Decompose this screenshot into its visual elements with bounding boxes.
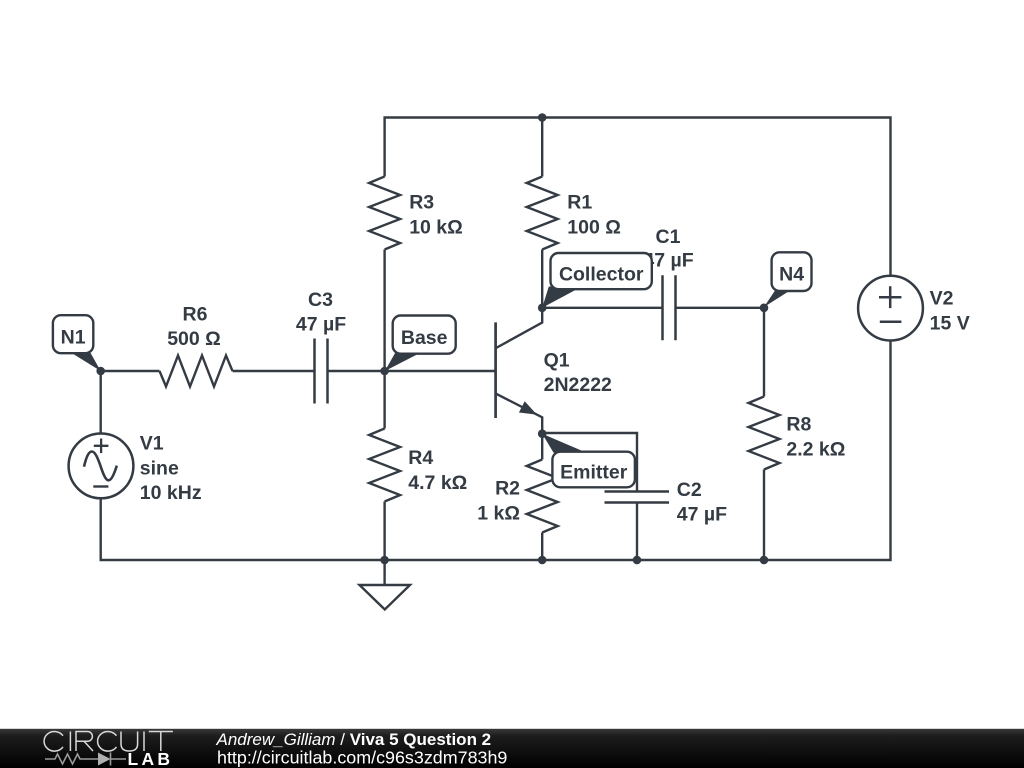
svg-text:C2: C2 <box>677 479 702 501</box>
svg-text:sine: sine <box>140 458 179 480</box>
svg-text:R6: R6 <box>183 304 208 326</box>
resistor R6 <box>160 356 233 387</box>
V2 minus sign <box>880 320 902 323</box>
svg-text:47 µF: 47 µF <box>677 503 727 525</box>
junction node dot N4 <box>760 304 769 313</box>
svg-text:Collector: Collector <box>559 263 644 285</box>
wire emitter node to C2 branch <box>542 433 637 492</box>
resistor R4 <box>369 429 400 502</box>
svg-text:Base: Base <box>401 327 448 349</box>
svg-text:10 kΩ: 10 kΩ <box>409 216 463 238</box>
svg-text:Andrew_Gilliam / Viva 5 Questi: Andrew_Gilliam / Viva 5 Question 2 <box>216 730 492 749</box>
svg-text:http://circuitlab.com/c96s3zdm: http://circuitlab.com/c96s3zdm783h9 <box>217 748 507 768</box>
svg-text:47 µF: 47 µF <box>296 313 346 335</box>
Q1 collector lead <box>496 308 542 348</box>
svg-text:N4: N4 <box>779 263 804 285</box>
CircuitLab logo wordmark CIRCUIT <box>44 732 173 752</box>
junction node dot at R1 top <box>538 113 547 122</box>
wire N1 node to R6 <box>101 370 160 372</box>
capacitor C3 plates <box>315 339 328 404</box>
junction node dot R2 bottom <box>538 556 547 565</box>
wire R2 top stem <box>541 434 543 460</box>
wire R8 bottom stem <box>763 470 765 561</box>
voltage source V2 circle <box>858 276 923 341</box>
V1 sine wave <box>84 452 117 481</box>
wire ground stem <box>383 560 385 585</box>
svg-text:C1: C1 <box>656 226 681 248</box>
CircuitLab logo resistor-diode strip <box>45 753 126 766</box>
resistor R2 <box>527 460 558 533</box>
resistor R1 <box>527 177 558 250</box>
transistor Q1 base bar <box>494 322 497 418</box>
svg-text:2N2222: 2N2222 <box>544 374 612 396</box>
junction node dot Collector <box>538 304 547 313</box>
wire C3 right plate to base node to Q1 base <box>328 370 496 372</box>
svg-text:4.7 kΩ: 4.7 kΩ <box>408 472 467 494</box>
svg-text:R2: R2 <box>495 478 520 500</box>
node N1 callout <box>53 315 101 371</box>
wire R1 top stem <box>541 118 543 177</box>
wire top rail with R3 top stem and V2 top stem <box>385 118 891 276</box>
Q1 emitter arrowhead <box>519 401 537 414</box>
junction node dot R8 bottom <box>760 556 769 565</box>
svg-text:R8: R8 <box>786 414 811 436</box>
V1 minus sign <box>93 485 108 487</box>
svg-text:Emitter: Emitter <box>560 462 628 484</box>
node Base callout <box>385 316 456 372</box>
capacitor C1 plates <box>663 275 676 340</box>
wire R3 bottom stem to base node <box>383 250 385 372</box>
Q1 emitter lead <box>496 394 542 434</box>
svg-text:R1: R1 <box>567 192 592 214</box>
resistor R8 <box>749 397 780 470</box>
node N4 callout <box>764 252 812 307</box>
capacitor C2 plates <box>605 492 670 503</box>
junction node dot N1 <box>96 367 105 376</box>
svg-text:R4: R4 <box>408 447 433 469</box>
junction node dot C2 bottom <box>633 556 642 565</box>
wire R4 bottom stem <box>383 502 385 561</box>
svg-text:2.2 kΩ: 2.2 kΩ <box>786 439 845 461</box>
svg-text:Q1: Q1 <box>544 350 570 372</box>
svg-text:1 kΩ: 1 kΩ <box>477 503 520 525</box>
ground symbol <box>360 585 411 610</box>
V2 plus sign <box>879 286 901 308</box>
node Emitter callout <box>542 434 635 488</box>
wire R8 top stem <box>763 308 765 397</box>
junction node dot ground <box>380 556 389 565</box>
wire R6 to C3 left plate <box>233 370 315 372</box>
node Collector callout <box>542 253 652 308</box>
V1 plus sign <box>94 439 109 454</box>
svg-text:V1: V1 <box>140 432 164 454</box>
wire R1 bottom stem to collector node <box>541 250 543 308</box>
svg-text:C3: C3 <box>308 289 333 311</box>
wire V1 top stem <box>99 371 101 434</box>
svg-text:10 kHz: 10 kHz <box>140 482 202 504</box>
wire R2 bottom stem <box>541 533 543 561</box>
wire R4 top stem <box>383 371 385 429</box>
junction node dot Emitter <box>538 429 547 438</box>
svg-text:V2: V2 <box>930 288 954 310</box>
svg-text:N1: N1 <box>61 326 86 348</box>
resistor R3 <box>369 177 400 250</box>
svg-text:LAB: LAB <box>128 749 174 768</box>
svg-text:R3: R3 <box>409 192 434 214</box>
CircuitLab logo diode triangle <box>98 753 111 766</box>
wire C2 bottom stem <box>636 503 638 561</box>
junction node dot Base <box>380 367 389 376</box>
wire C1 right plate to N4 node <box>676 307 765 309</box>
svg-text:100 Ω: 100 Ω <box>567 216 621 238</box>
voltage source V1 circle <box>69 434 134 499</box>
svg-text:500 Ω: 500 Ω <box>167 328 221 350</box>
wire collector node to C1 left plate <box>542 307 662 309</box>
svg-text:15 V: 15 V <box>930 313 970 335</box>
wire V1 bottom stem, bottom rail, V2 bottom stem <box>101 340 891 560</box>
